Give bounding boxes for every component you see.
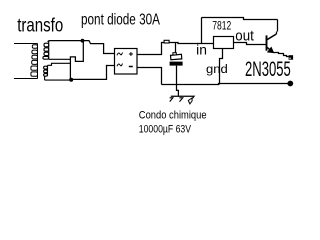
output terminal positive (square) [289, 55, 294, 60]
ground symbol bar [171, 96, 194, 98]
svg-text:transfo: transfo [17, 16, 63, 37]
bridge plus sign [129, 52, 133, 56]
ground hatch 3 [188, 98, 192, 104]
ground hatch 1 [170, 98, 173, 102]
output terminal negative (round) [287, 81, 293, 87]
regulator U1 7812 box [214, 37, 234, 49]
wire bridge - output down to ground rail [137, 68, 162, 85]
node junction dot A on top secondary wire [81, 39, 85, 43]
svg-text:pont diode 30A: pont diode 30A [81, 12, 160, 29]
capacitor C1 top plate [171, 54, 182, 59]
svg-text:10000µF 63V: 10000µF 63V [139, 124, 192, 136]
transistor Q1 collector stroke [267, 34, 276, 40]
capacitor C1 plate tab [173, 53, 176, 55]
wire node B to bridge AC2 [71, 66, 115, 80]
capacitor C1 top lead [175, 43, 177, 54]
ground hatch 2 [179, 98, 182, 102]
wire bridge + output to regulator input rail [137, 43, 214, 55]
transistor Q1 emitter arrowhead [268, 47, 274, 52]
transistor Q1 2N3055 base bar [266, 35, 268, 50]
svg-text:in: in [196, 43, 207, 58]
svg-text:7812: 7812 [212, 18, 231, 32]
bridge rectifier box [115, 49, 138, 75]
top rail from regulator input to collector [202, 18, 278, 44]
capacitor C1 bottom plate [170, 62, 183, 66]
transformer T1 secondary coil 2 [44, 63, 71, 80]
emitter output wire [274, 53, 289, 57]
wire secondary top to bridge AC1 [48, 41, 115, 54]
regulator ground lead [220, 49, 223, 85]
svg-text:gnd: gnd [206, 62, 228, 76]
transformer T1 primary winding [14, 44, 38, 79]
node junction dot B at secondary bottom [69, 78, 73, 82]
transistor Q1 emitter stroke [267, 47, 273, 52]
svg-text:Condo chimique: Condo chimique [139, 110, 207, 122]
wire jog from node A down to node B [70, 41, 83, 80]
wire regulator out to transistor base [234, 43, 267, 45]
transformer T1 secondary coil 1 [43, 41, 71, 60]
bottom ground rail [162, 84, 288, 85]
bridge AC symbol top [117, 52, 123, 55]
bridge minus sign [129, 66, 133, 68]
bridge AC symbol bottom [117, 64, 123, 67]
small fuse box on + wire [164, 40, 169, 43]
capacitor C1 bottom lead [177, 66, 179, 96]
svg-text:2N3055: 2N3055 [245, 58, 291, 81]
